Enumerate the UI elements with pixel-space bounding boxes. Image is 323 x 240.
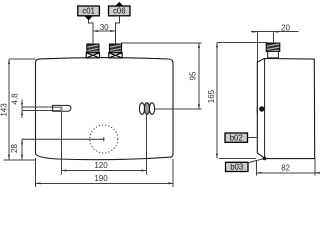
dimension 4,8 (slot height) [11,93,24,118]
side pipe union nut [268,52,279,58]
dimension 190 [36,174,174,185]
pipe 2 union nut with X [109,53,122,58]
pipe 2 threaded fitting [109,44,121,53]
slot screw mark [53,106,61,108]
svg-text:b02: b02 [230,133,243,142]
cable gland ovals [139,103,144,115]
extension line from slot down (120 left) [60,111,62,174]
dimension 82 [256,164,319,174]
radius line to circle center (28 extension) [22,138,104,140]
side view screw dot [259,106,264,111]
dimension 143 (left of front view) [0,59,36,160]
svg-text:28: 28 [10,144,19,153]
svg-text:190: 190 [94,174,108,183]
extension lines body sides down (190) [35,158,37,187]
svg-text:120: 120 [94,161,108,170]
dimension 28 (circle center height) [10,139,23,160]
leader c06 to pipe 2 [116,16,120,44]
label b03 [226,157,267,172]
dimension 165 (side height) [207,42,267,158]
dimension 120 [61,161,146,172]
side view body outline [257,59,314,159]
keyhole slot capsule [53,105,71,111]
extension lines for 82 [255,160,257,176]
svg-text:30: 30 [100,23,109,32]
svg-text:4,8: 4,8 [11,93,20,105]
label c01 [78,6,100,20]
svg-text:143: 143 [0,103,9,117]
dimension 30 (pipe spacing) [93,23,116,32]
svg-text:c06: c06 [113,7,126,16]
svg-text:c01: c01 [82,7,95,16]
dashed circle (outlet) [90,125,118,153]
side pipe threaded fitting [266,43,280,52]
front view body outline [36,58,174,160]
svg-text:82: 82 [281,164,290,173]
side view cover joint line [264,59,266,159]
pipe 1 union nut with X [86,53,99,58]
pipe 1 threaded fitting [87,44,99,53]
dimension 95 (right of front view) [121,43,202,109]
keyhole slot narrow lines (also 4.8 extension lines) [22,106,54,108]
svg-text:95: 95 [189,71,198,80]
svg-text:165: 165 [207,89,216,103]
svg-text:20: 20 [281,23,290,32]
label b02 [225,133,257,142]
label c06 [109,2,131,16]
dimension 20 (pipe offset) [251,23,299,62]
extension line from ovals down (120 right) [146,115,148,175]
svg-text:b03: b03 [230,163,243,172]
leader c01 to pipe 1 [89,20,93,44]
